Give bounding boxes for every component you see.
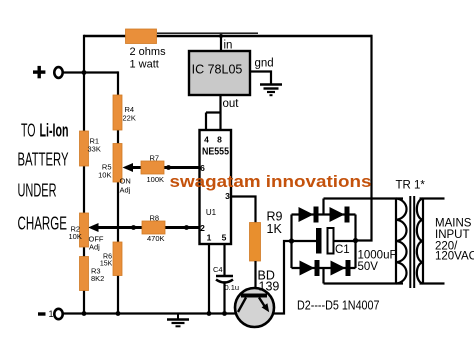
svg-text:5: 5 [222, 233, 227, 243]
svg-text:8: 8 [217, 135, 222, 145]
svg-text:Li-Ion: Li-Ion [40, 121, 69, 141]
svg-text:MAINS: MAINS [435, 218, 472, 230]
ground symbol bottom rail [167, 314, 189, 327]
resistor R7 100K [141, 154, 164, 185]
svg-text:out: out [223, 98, 240, 110]
wire R9 to base [254, 261, 256, 295]
wire bridge top row [292, 213, 356, 215]
svg-text:2: 2 [200, 223, 205, 233]
svg-text:120VAC: 120VAC [435, 251, 474, 263]
wire pin6 with wiper arrow to R5 [123, 163, 200, 172]
svg-text:TR 1*: TR 1* [396, 180, 426, 192]
svg-text:UNDER: UNDER [18, 181, 57, 201]
svg-text:R8: R8 [150, 214, 160, 223]
svg-text:Adj: Adj [120, 186, 131, 195]
diode D5 [331, 260, 351, 276]
svg-text:C4: C4 [213, 265, 223, 274]
potentiometer R2 10K OFF Adj [69, 213, 104, 252]
svg-text:2 ohms: 2 ohms [130, 46, 167, 58]
IC 78L05 regulator U2 [189, 40, 274, 111]
watermark swagatam innovations [170, 173, 372, 191]
wire emitter to bridge [274, 241, 292, 314]
svg-text:15K: 15K [100, 261, 113, 268]
svg-text:3: 3 [225, 191, 230, 201]
svg-text:1000uF: 1000uF [358, 250, 397, 262]
terminal minus [38, 309, 63, 319]
svg-text:IC 78L05: IC 78L05 [192, 63, 243, 77]
wire DC+ right vertical [356, 35, 372, 241]
transformer TR1 [396, 180, 445, 289]
svg-text:33K: 33K [88, 145, 101, 154]
svg-text:0.1u: 0.1u [225, 283, 240, 292]
op-amp timer NE555 U1 [200, 130, 232, 244]
resistor R9 1K [250, 210, 283, 262]
svg-text:TO: TO [21, 121, 36, 141]
ground symbol near regulator [260, 85, 282, 96]
node junction rail1 bottom [82, 311, 87, 316]
resistor R4 22K [113, 95, 136, 130]
capacitor C1 1000uF 50V [316, 228, 397, 273]
wire in stub [219, 34, 223, 51]
label mains input [435, 218, 474, 263]
node junction rail2 bottom [116, 311, 121, 316]
svg-text:Adj: Adj [89, 243, 100, 252]
svg-text:INPUT: INPUT [435, 229, 470, 241]
node junction plus feed [82, 70, 87, 75]
wire bridge bottom row [292, 267, 356, 269]
svg-text:1 watt: 1 watt [130, 59, 159, 71]
wire bridge left vertical [289, 215, 294, 269]
resistor 2 ohms 1 watt [126, 29, 167, 71]
wire pin2 with wiper arrow to R2 [88, 223, 199, 232]
svg-text:22K: 22K [123, 114, 136, 123]
wire plus feed [63, 71, 118, 73]
svg-text:1: 1 [207, 233, 212, 243]
wire bottom negative rail [63, 312, 236, 314]
svg-text:CHARGE: CHARGE [18, 214, 68, 234]
wire pin5 to C4 [222, 244, 227, 316]
svg-text:D2----D5 1N4007: D2----D5 1N4007 [297, 299, 380, 313]
label diodes [297, 299, 380, 313]
wire gnd stub [250, 72, 271, 84]
diode D2 [299, 207, 319, 223]
capacitor C4 0.1u [213, 265, 239, 292]
svg-text:50V: 50V [358, 261, 379, 273]
wire out to pins 4 and 8 [206, 95, 221, 130]
svg-text:R6: R6 [103, 254, 112, 261]
svg-text:8K2: 8K2 [91, 274, 104, 283]
diode D3 [330, 207, 350, 223]
svg-text:1: 1 [49, 309, 54, 319]
resistor R3 8K2 [80, 257, 105, 291]
svg-text:in: in [224, 40, 233, 52]
wire bridge middle [292, 240, 356, 242]
wire left rail 1 [83, 35, 85, 314]
svg-text:ON: ON [120, 177, 131, 186]
wire AC bottom [324, 268, 404, 284]
svg-text:R7: R7 [150, 154, 160, 163]
svg-text:BATTERY: BATTERY [18, 150, 69, 170]
svg-text:U1: U1 [206, 208, 217, 217]
transistor Q1 BD139 [235, 269, 279, 328]
label battery [18, 121, 69, 234]
svg-text:10K: 10K [69, 232, 82, 241]
svg-text:swagatam innovations: swagatam innovations [170, 173, 372, 191]
wire pin3 to R9 [231, 197, 256, 224]
wire rail 2 [117, 71, 119, 313]
svg-text:10K: 10K [98, 171, 111, 180]
terminal plus [33, 66, 63, 78]
svg-text:139: 139 [259, 280, 280, 294]
svg-text:6: 6 [200, 163, 205, 173]
wire pin1 to rail [207, 244, 212, 316]
wire bridge right vertical [353, 215, 358, 269]
potentiometer R5 10K ON Adj [98, 144, 131, 195]
resistor R1 33K [80, 131, 101, 166]
diode D4 [300, 260, 320, 276]
wire AC top [324, 199, 404, 215]
svg-text:4: 4 [204, 135, 209, 145]
svg-text:gnd: gnd [255, 58, 274, 70]
svg-text:NE555: NE555 [202, 147, 229, 158]
svg-text:C1: C1 [335, 244, 350, 256]
svg-text:100K: 100K [147, 175, 165, 184]
wire top positive rail [84, 33, 372, 36]
resistor R8 470K [142, 214, 165, 244]
svg-text:1K: 1K [267, 222, 283, 236]
resistor R6 15K [100, 242, 122, 276]
svg-text:470K: 470K [147, 234, 165, 243]
